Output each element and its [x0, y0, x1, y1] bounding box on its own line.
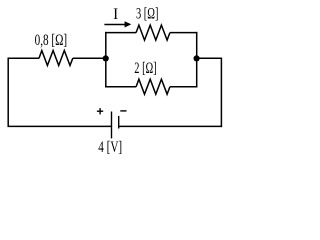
node B junction dot (right) [194, 55, 200, 61]
svg-text:0,8 [Ω]: 0,8 [Ω] [35, 31, 68, 48]
current arrow [104, 24, 126, 26]
battery minus sign [120, 110, 126, 112]
current label I [113, 6, 118, 23]
wire: right vertical side of outer loop [220, 58, 222, 127]
wire: bottom horizontal left of battery [8, 125, 112, 127]
battery V1 long positive plate [111, 112, 113, 139]
wire: top-left horizontal from corner to R1 [8, 57, 40, 59]
resistor R1 0.8 ohm zigzag [39, 51, 73, 66]
wire: top branch right horizontal [170, 32, 198, 34]
label 2 [ohm] for R3 [134, 59, 156, 77]
wire: top branch left horizontal [105, 32, 136, 34]
wire: from right node to outer right corner [197, 57, 222, 59]
wire: bottom branch right horizontal [170, 86, 198, 88]
wire: left branch vertical between top and bottom branches [105, 32, 107, 88]
label 4 [V] for battery [98, 138, 122, 155]
label 0,8 [ohm] for R1 [35, 31, 68, 48]
wire: from R1 to left node [73, 57, 106, 59]
wire: right branch vertical between top and bottom branches [196, 32, 198, 88]
svg-text:2 [Ω]: 2 [Ω] [134, 59, 156, 77]
wire: bottom branch left horizontal [105, 86, 136, 88]
battery V1 short negative plate [118, 116, 120, 129]
svg-text:4 [V]: 4 [V] [98, 138, 122, 155]
label 3 [ohm] for R2 [136, 4, 158, 22]
svg-text:3 [Ω]: 3 [Ω] [136, 4, 158, 22]
wire: left vertical side of outer loop [7, 58, 9, 126]
resistor R3 2 ohm zigzag [136, 79, 170, 94]
svg-text:I: I [113, 6, 118, 23]
wire: bottom horizontal right of battery [119, 125, 223, 127]
resistor R2 3 ohm zigzag [136, 25, 170, 40]
node A junction dot (left) [103, 55, 109, 61]
battery plus sign [97, 108, 103, 114]
